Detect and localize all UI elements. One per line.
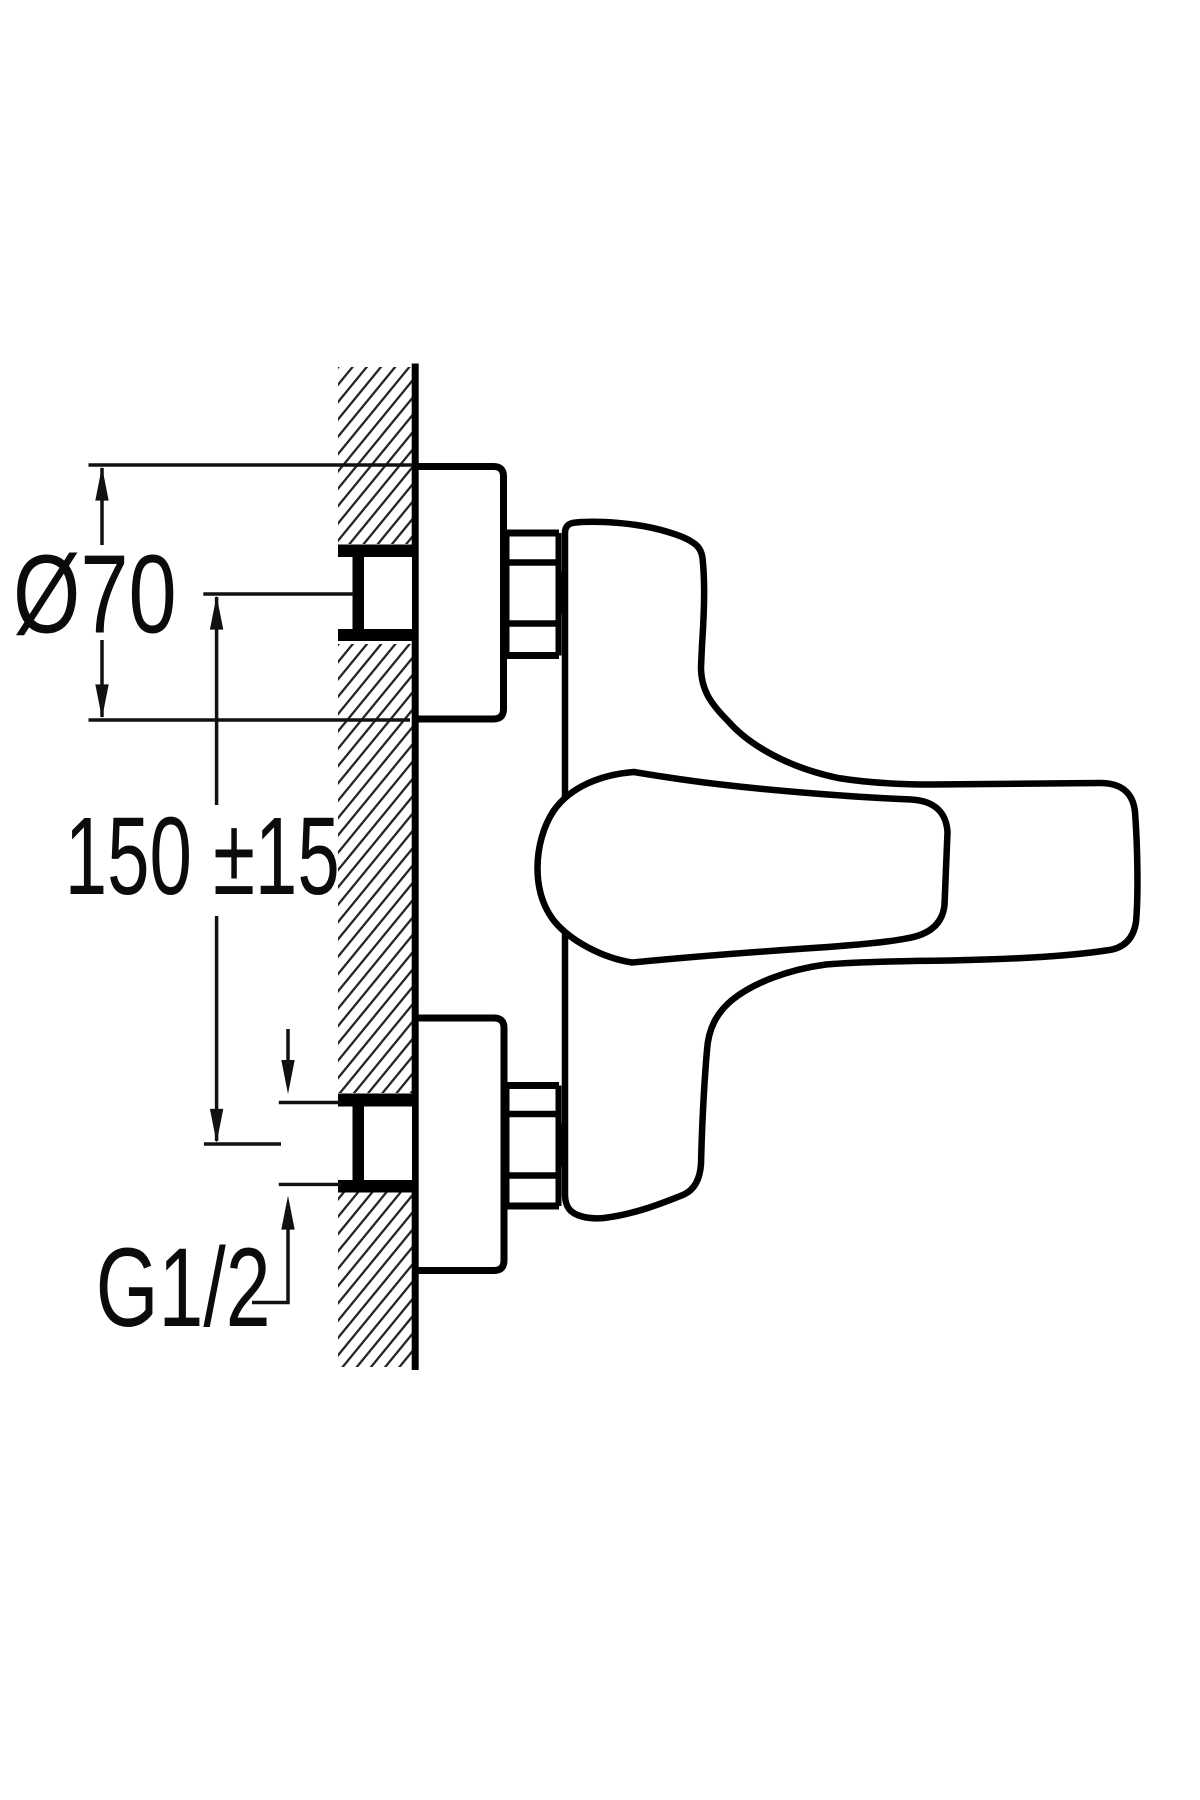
lever handle: [538, 772, 948, 963]
top in-wall pipe: [338, 545, 419, 642]
bottom hex nut: [505, 1086, 561, 1207]
G1/2 leader line bottom: [279, 1183, 341, 1186]
G1/2 leader line top: [279, 1101, 341, 1104]
svg-text:Ø70: Ø70: [13, 533, 177, 657]
bottom in-wall pipe: [338, 1094, 419, 1193]
bottom escutcheon: [413, 1018, 504, 1271]
faucet body: [565, 522, 1137, 1219]
G1/2 arrow up with leader: [252, 1196, 295, 1303]
wall hatching: [0, 0, 1200, 1400]
dimension Ø70 extension line bottom: [89, 718, 411, 722]
top escutcheon: [413, 467, 504, 720]
dimension 150±15 line with arrows: [204, 596, 281, 1144]
svg-text:150 ±15: 150 ±15: [65, 795, 340, 918]
dimension Ø70 extension line top: [89, 463, 413, 467]
dimension Ø70 line with arrows: [95, 467, 108, 719]
G1/2 arrow down: [281, 1029, 294, 1094]
top hex nut: [505, 533, 561, 656]
dimension 150±15 reference line: [203, 592, 354, 596]
wall face line: [412, 364, 419, 1371]
svg-text:G1/2: G1/2: [96, 1225, 271, 1350]
